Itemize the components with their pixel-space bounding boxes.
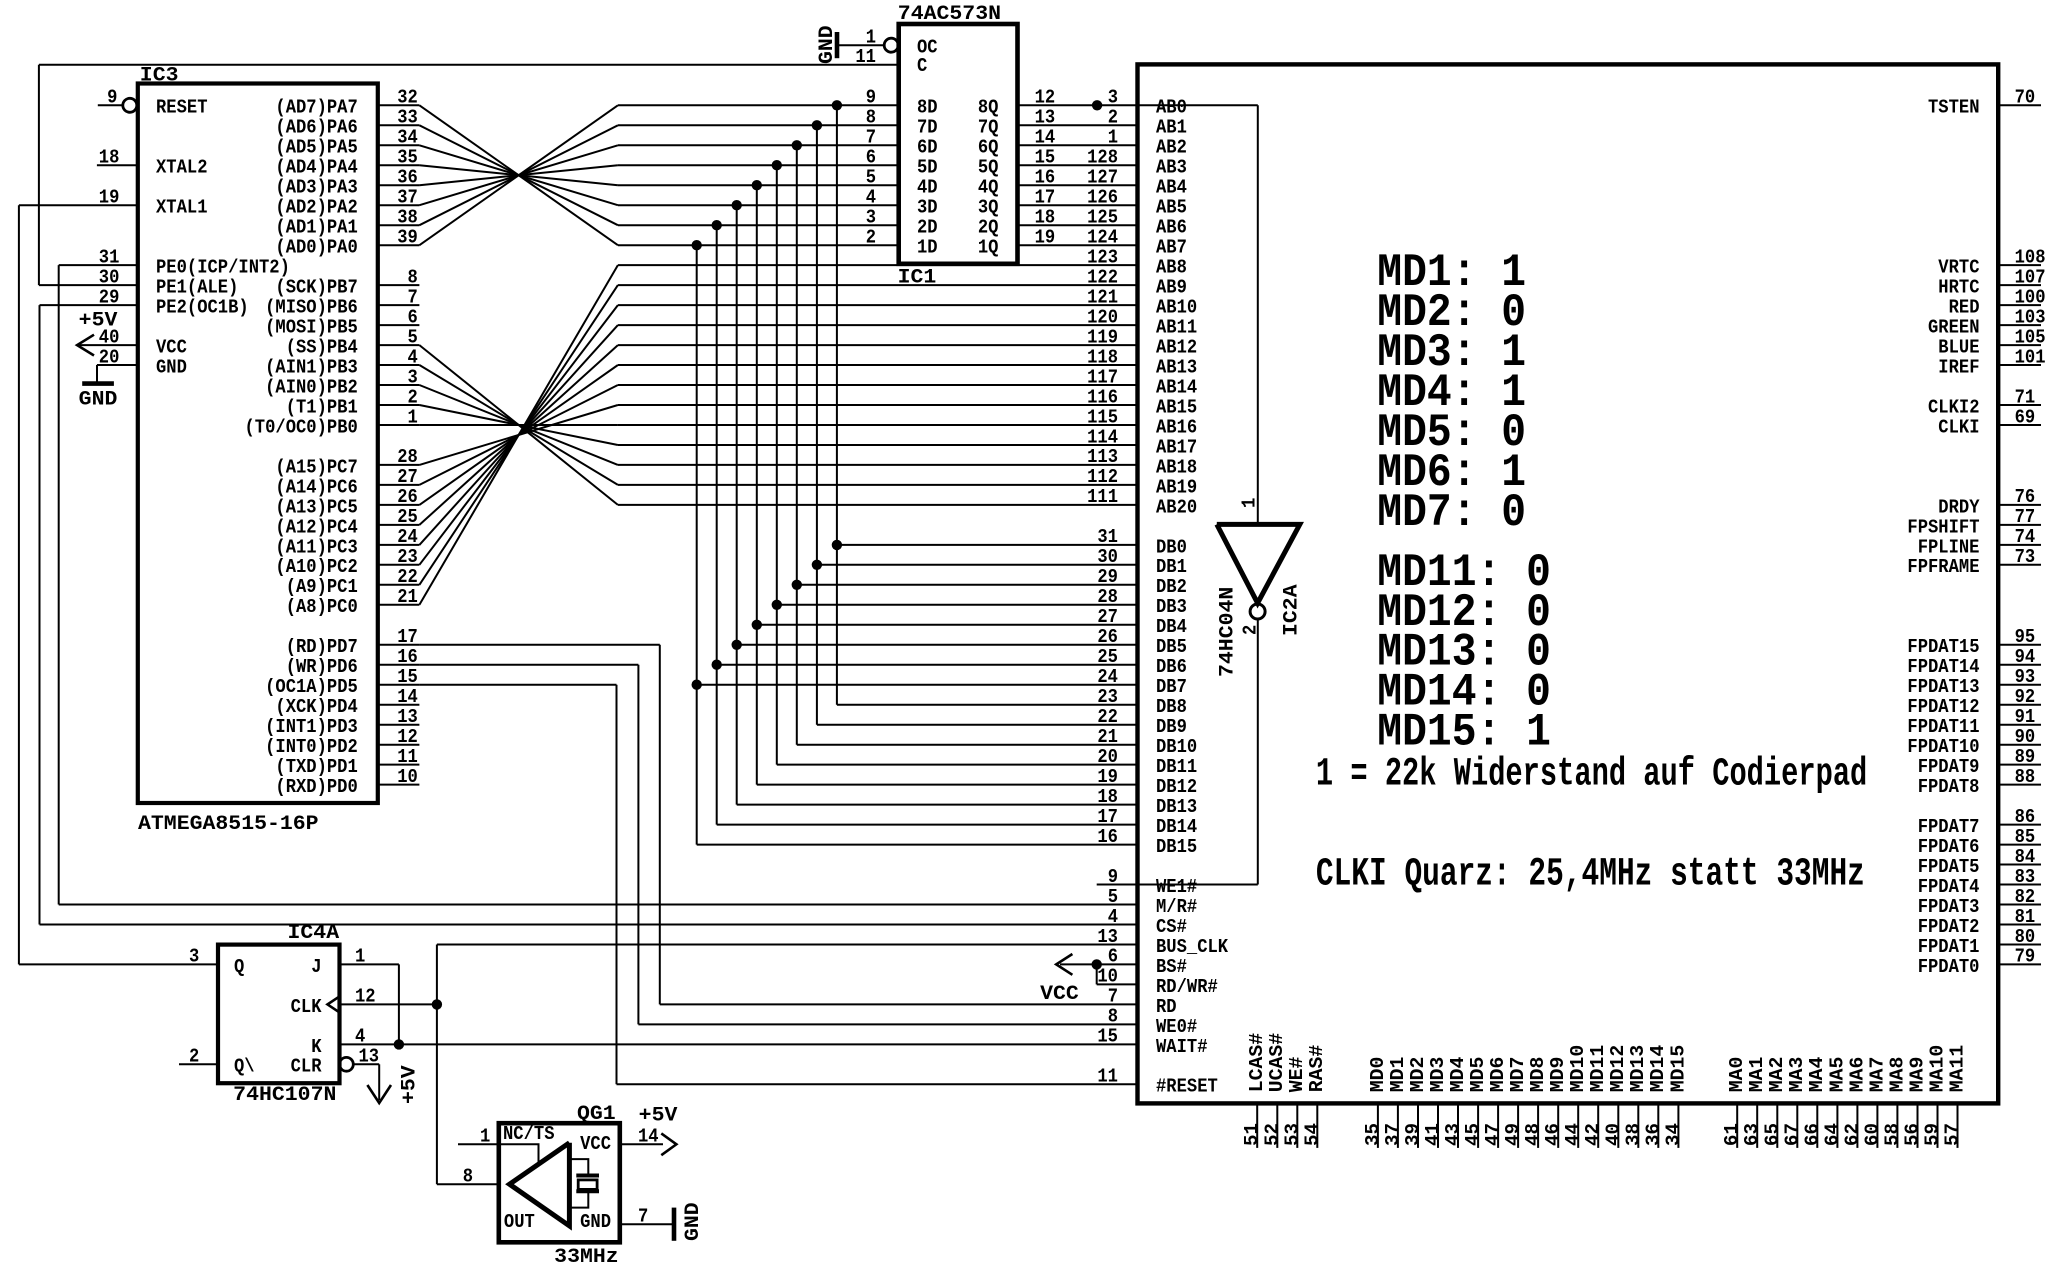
svg-text:DB15: DB15 (1156, 836, 1197, 858)
svg-text:54: 54 (1301, 1123, 1323, 1146)
svg-text:(WR)PD6: (WR)PD6 (286, 656, 358, 678)
svg-text:FPFRAME: FPFRAME (1907, 556, 1979, 578)
junction AD0 at data drop (692, 240, 702, 250)
wire WE0# to controller (638, 1023, 1137, 1025)
controller IREF pin stub (1998, 364, 2041, 366)
svg-text:101: 101 (2015, 346, 2046, 368)
svg-text:4Q: 4Q (978, 177, 999, 199)
wire DB11 to controller (777, 764, 1138, 766)
IC3 PA3 pin name (275, 177, 357, 199)
svg-text:118: 118 (1087, 346, 1118, 368)
svg-text:IC2A: IC2A (1281, 584, 1304, 636)
wire address fan diagonal PC2 (419, 305, 618, 565)
svg-text:88: 88 (2015, 766, 2036, 788)
controller MA7 pin stub (1876, 1103, 1878, 1148)
QG1 NC/TS pin name (503, 1123, 555, 1145)
IC3 PC7 pin name (275, 456, 357, 478)
controller AB0 pin name (1156, 97, 1187, 119)
svg-text:(T1)PB1: (T1)PB1 (286, 396, 358, 418)
controller RAS# pin stub (1316, 1103, 1318, 1148)
svg-text:61: 61 (1721, 1123, 1743, 1146)
wire DB15 to controller (697, 844, 1138, 846)
svg-text:30: 30 (1097, 546, 1118, 568)
controller pin 57 number (1942, 1123, 1964, 1146)
svg-text:MA11: MA11 (1946, 1045, 1968, 1093)
junction AD1 at data drop (712, 220, 722, 230)
IC3 pin 29 PE2 wire (40, 304, 138, 306)
IC3 pin 13 PD3 stub (378, 724, 420, 726)
svg-text:67: 67 (1781, 1123, 1803, 1146)
IC3 pin 38 PA1 stub (378, 224, 420, 226)
svg-text:(SCK)PB7: (SCK)PB7 (275, 277, 357, 299)
IC3 pin 12 PD2 stub (378, 744, 420, 746)
svg-text:BLUE: BLUE (1938, 337, 1979, 359)
svg-text:51: 51 (1241, 1123, 1263, 1146)
IC4A pin 4 K wire WAIT# net (340, 1043, 1138, 1045)
IC3 PC4 pin name (275, 516, 358, 538)
IC3 pin 16 PD6 stub (378, 664, 420, 666)
svg-text:GND: GND (682, 1202, 705, 1241)
annotation text MD7 setting (1377, 486, 1526, 539)
svg-text:+5V: +5V (399, 1065, 422, 1104)
controller MD4 pin name (1447, 1056, 1469, 1092)
wire AB0 into box to inverter (1138, 104, 1258, 106)
IC3 pin 40 VCC wire (78, 344, 138, 346)
controller MD10 pin stub (1577, 1103, 1579, 1148)
svg-text:29: 29 (1097, 566, 1118, 588)
svg-text:MD15: 1: MD15: 1 (1377, 706, 1551, 759)
IC3 VCC pin name (156, 337, 187, 359)
controller MD1 pin stub (1397, 1103, 1399, 1148)
controller MA10 pin stub (1937, 1103, 1939, 1148)
controller pin 27 number (1097, 606, 1118, 628)
svg-text:80: 80 (2015, 926, 2036, 948)
IC3 PC3 pin name (275, 536, 357, 558)
svg-text:(AD1)PA1: (AD1)PA1 (275, 217, 357, 239)
IC3 pin 5 number (408, 326, 418, 348)
wire inverter output vertical (1257, 619, 1259, 885)
controller AB5 pin name (1156, 197, 1187, 219)
svg-text:FPDAT4: FPDAT4 (1918, 876, 1980, 898)
wire AD1 vertical data drop (716, 225, 718, 824)
wire DB14 to controller (717, 824, 1138, 826)
wire PD5 horizontal (419, 684, 616, 686)
IC3 PB5 pin name (265, 317, 358, 339)
annotation text MD6 setting (1377, 446, 1526, 499)
svg-text:23: 23 (1097, 686, 1118, 708)
IC1 6D pin name (917, 137, 938, 159)
svg-text:WE1#: WE1# (1156, 876, 1197, 898)
controller pin 36 number (1642, 1123, 1664, 1146)
controller TSTEN pin stub (1998, 104, 2041, 106)
controller FPDAT8 pin name (1918, 776, 1980, 798)
controller FPSHIFT pin name (1907, 516, 1979, 538)
IC3 PB3 pin name (265, 356, 358, 378)
IC3 pin 32 PA7 stub (378, 104, 420, 106)
svg-text:VCC: VCC (1040, 983, 1079, 1006)
IC1 pin 2 number (866, 227, 876, 249)
controller FPDAT10 pin name (1907, 736, 1979, 758)
svg-text:CLKI2: CLKI2 (1928, 396, 1980, 418)
IC3 PD6 pin name (286, 656, 358, 678)
controller AB2 pin name (1156, 137, 1187, 159)
svg-text:(A9)PC1: (A9)PC1 (286, 576, 358, 598)
svg-text:AB0: AB0 (1156, 97, 1187, 119)
svg-text:41: 41 (1422, 1123, 1444, 1146)
controller pin 88 number (2015, 766, 2036, 788)
svg-text:AB1: AB1 (1156, 117, 1187, 139)
controller AB12 pin name (1156, 337, 1197, 359)
svg-text:4: 4 (408, 346, 419, 368)
wire AB20 to controller (618, 504, 1138, 506)
svg-text:DB10: DB10 (1156, 736, 1197, 758)
svg-text:MD12: MD12 (1607, 1045, 1629, 1093)
svg-text:AB20: AB20 (1156, 496, 1197, 518)
svg-text:AB10: AB10 (1156, 297, 1197, 319)
svg-text:16: 16 (397, 646, 418, 668)
wire DB3 to controller (777, 604, 1138, 606)
controller DB11 pin name (1156, 756, 1197, 778)
svg-text:FPDAT8: FPDAT8 (1918, 776, 1980, 798)
controller DB1 pin name (1156, 556, 1187, 578)
svg-text:30: 30 (99, 266, 120, 288)
svg-text:AB18: AB18 (1156, 456, 1197, 478)
svg-text:42: 42 (1582, 1123, 1604, 1146)
IC3 PC0 pin name (286, 596, 358, 618)
controller FPDAT14 pin name (1907, 656, 1979, 678)
QG1 OUT pin name (504, 1211, 535, 1233)
wire AD4 vertical data drop (776, 165, 778, 764)
svg-text:19: 19 (99, 187, 120, 209)
controller pin 4 number (1108, 906, 1119, 928)
controller pin 48 number (1522, 1123, 1544, 1146)
controller MD12 pin stub (1617, 1103, 1619, 1148)
controller AB6 pin name (1156, 217, 1187, 239)
VCC supply label (1040, 983, 1079, 1006)
controller WE1# pin name (1156, 876, 1197, 898)
controller MA3 pin stub (1796, 1103, 1798, 1148)
wire AD bus fan diagonal PA4 (419, 165, 618, 185)
svg-text:NC/TS: NC/TS (503, 1123, 555, 1145)
svg-text:(TXD)PD1: (TXD)PD1 (275, 756, 357, 778)
svg-text:3D: 3D (917, 197, 938, 219)
svg-text:108: 108 (2015, 246, 2046, 268)
wire DB8 to controller (837, 704, 1138, 706)
IC1 pin 1 OC bubble (884, 38, 898, 52)
IC4A Qbar pin name (234, 1056, 255, 1078)
IC4A pin 12 CLK wire (340, 1003, 437, 1005)
IC3 name label (140, 65, 179, 88)
IC3 PA1 pin name (275, 217, 357, 239)
svg-text:123: 123 (1087, 246, 1118, 268)
IC1 pin 4 number (866, 187, 877, 209)
IC3 pin 33 number (397, 107, 418, 129)
svg-text:34: 34 (397, 127, 418, 149)
IC3 pin 15 PD5 stub (378, 684, 420, 686)
wire PD7 RD vertical (659, 645, 661, 1005)
controller WE# pin name (1286, 1056, 1308, 1092)
wire AD4 horizontal to IC1 5D (618, 164, 899, 166)
IC1 5Q pin name (978, 157, 999, 179)
controller FPDAT2 pin name (1918, 916, 1980, 938)
controller pin 42 number (1582, 1123, 1604, 1146)
IC3 PE0 pin name (156, 257, 290, 279)
svg-text:MA0: MA0 (1726, 1057, 1748, 1093)
svg-text:RD: RD (1156, 996, 1177, 1018)
wire DB9 to controller (817, 724, 1138, 726)
wire AD bus fan diagonal PA6 (419, 125, 618, 225)
controller CLKI pin stub (1998, 424, 2041, 426)
controller CLKI2 pin stub (1998, 404, 2041, 406)
controller pin 39 number (1402, 1123, 1424, 1146)
IC1 pin 5 number (866, 167, 876, 189)
svg-text:65: 65 (1761, 1123, 1783, 1146)
QG1 GND pin name (580, 1211, 611, 1233)
svg-text:84: 84 (2015, 846, 2036, 868)
svg-text:2D: 2D (917, 217, 938, 239)
svg-text:64: 64 (1821, 1123, 1843, 1146)
svg-text:17: 17 (1097, 806, 1118, 828)
svg-text:(A15)PC7: (A15)PC7 (275, 456, 357, 478)
controller pin 120 number (1087, 306, 1118, 328)
controller pin 103 number (2015, 306, 2046, 328)
svg-text:HRTC: HRTC (1938, 277, 1979, 299)
svg-text:124: 124 (1087, 227, 1118, 249)
controller MD13 pin stub (1637, 1103, 1639, 1148)
controller MA2 pin name (1766, 1057, 1788, 1093)
svg-text:(XCK)PD4: (XCK)PD4 (275, 696, 358, 718)
junction AD7 at data drop (832, 100, 842, 110)
controller DB14 pin name (1156, 816, 1197, 838)
controller pin 10 number (1097, 966, 1118, 988)
wire XTAL1 net vertical to IC4A Q (18, 205, 20, 964)
wire AD2 vertical data drop (736, 205, 738, 804)
controller pin 101 number (2015, 346, 2046, 368)
svg-text:74AC573N: 74AC573N (898, 3, 1001, 26)
controller WE0# pin name (1156, 1016, 1197, 1038)
svg-text:89: 89 (2015, 746, 2036, 768)
IC3 pin 3 number (408, 366, 418, 388)
svg-text:126: 126 (1087, 187, 1118, 209)
svg-text:11: 11 (397, 746, 418, 768)
svg-text:MA7: MA7 (1866, 1057, 1888, 1093)
controller AB11 pin name (1156, 317, 1197, 339)
IC3 pin 12 number (397, 726, 418, 748)
svg-text:XTAL1: XTAL1 (156, 197, 208, 219)
wire address fan diagonal PC3 (419, 325, 618, 545)
controller CLKI pin name (1938, 416, 1979, 438)
IC3 PA5 pin name (275, 137, 357, 159)
wire DB4 to controller (757, 624, 1138, 626)
controller pin 70 number (2015, 87, 2036, 109)
controller pin 49 number (1502, 1123, 1524, 1146)
svg-text:AB13: AB13 (1156, 356, 1197, 378)
IC3 value label ATMEGA8515-16P (138, 813, 319, 836)
svg-text:PE1(ALE): PE1(ALE) (156, 277, 238, 299)
svg-text:111: 111 (1087, 486, 1118, 508)
controller MA8 pin name (1886, 1057, 1908, 1093)
controller RAS# pin name (1306, 1044, 1328, 1092)
svg-text:MD15: MD15 (1667, 1045, 1689, 1093)
svg-text:CLKI: CLKI (1938, 416, 1979, 438)
controller DB10 pin name (1156, 736, 1197, 758)
controller CS# pin name (1156, 916, 1187, 938)
svg-text:(A14)PC6: (A14)PC6 (275, 476, 357, 498)
controller WE# pin stub (1296, 1103, 1298, 1148)
svg-text:(AD7)PA7: (AD7)PA7 (275, 97, 357, 119)
svg-text:82: 82 (2015, 886, 2036, 908)
svg-text:DB11: DB11 (1156, 756, 1197, 778)
IC1 pin 14 number (1035, 127, 1056, 149)
svg-text:14: 14 (397, 686, 418, 708)
wire PD7 RD horizontal (419, 644, 659, 646)
IC3 pin 25 number (397, 506, 418, 528)
controller MA3 pin name (1786, 1057, 1808, 1093)
controller pin 38 number (1622, 1123, 1644, 1146)
controller MA6 pin stub (1856, 1103, 1858, 1148)
svg-text:60: 60 (1861, 1123, 1883, 1146)
svg-text:24: 24 (397, 526, 418, 548)
svg-text:16: 16 (1097, 826, 1118, 848)
svg-text:(AIN1)PB3: (AIN1)PB3 (265, 356, 358, 378)
controller pin 2 number (1108, 107, 1118, 129)
svg-text:FPDAT11: FPDAT11 (1907, 716, 1979, 738)
svg-text:MD0: MD0 (1367, 1057, 1389, 1093)
svg-text:20: 20 (99, 346, 120, 368)
wire PE0 to M/R# horizontal (59, 904, 1138, 906)
IC3 pin 10 number (397, 766, 418, 788)
IC3 pin 18 number (99, 147, 120, 169)
svg-text:DB4: DB4 (1156, 616, 1187, 638)
svg-text:28: 28 (397, 446, 418, 468)
controller FPFRAME pin name (1907, 556, 1979, 578)
controller MD3 pin stub (1437, 1103, 1439, 1148)
controller MA1 pin stub (1756, 1103, 1758, 1148)
IC3 pin 16 number (397, 646, 418, 668)
IC1 7D pin name (917, 117, 938, 139)
IC3 PA6 pin name (275, 117, 357, 139)
IC1 pin 8 number (866, 107, 876, 129)
IC1 C pin name (917, 55, 928, 77)
controller MA11 pin stub (1957, 1103, 1959, 1148)
svg-text:CLR: CLR (291, 1056, 322, 1078)
svg-text:37: 37 (397, 187, 418, 209)
controller pin 113 number (1087, 446, 1118, 468)
wire BS# to RD/WR# vertical (1096, 964, 1098, 984)
IC3 pin 2 number (408, 386, 418, 408)
wire address fan diagonal PC1 (419, 285, 618, 585)
controller pin 73 number (2015, 546, 2036, 568)
QG1 amplifier triangle (510, 1143, 570, 1226)
IC3 pin 3 PB2 stub (378, 384, 420, 386)
svg-text:#RESET: #RESET (1156, 1076, 1218, 1098)
svg-text:3Q: 3Q (978, 197, 999, 219)
controller MA9 pin name (1906, 1057, 1928, 1093)
controller pin 16 number (1097, 826, 1118, 848)
IC3 pin 11 PD1 stub (378, 764, 420, 766)
controller FPDAT15 pin stub (1998, 644, 2041, 646)
IC3 pin 8 PB7 stub (378, 284, 420, 286)
svg-text:70: 70 (2015, 87, 2036, 109)
junction AD6 at data drop (812, 120, 822, 130)
controller MD9 pin stub (1557, 1103, 1559, 1148)
controller pin 29 number (1097, 566, 1118, 588)
controller FPFRAME pin stub (1998, 564, 2041, 566)
controller MA4 pin stub (1816, 1103, 1818, 1148)
svg-text:11: 11 (1097, 1066, 1118, 1088)
wire AD bus fan diagonal PA5 (419, 145, 618, 205)
IC4A Q pin name (234, 956, 245, 978)
svg-text:46: 46 (1542, 1123, 1564, 1146)
svg-text:7: 7 (1108, 986, 1118, 1008)
wire AB15 to controller (618, 404, 1138, 406)
controller RD/WR# pin name (1156, 976, 1218, 998)
wire J to K vertical (398, 964, 400, 1044)
+5V supply arrow at IC4A CLR (367, 1085, 391, 1103)
wire AD5 vertical data drop (796, 145, 798, 744)
wire RD/WR# stub (1097, 983, 1138, 985)
svg-text:2: 2 (408, 386, 418, 408)
svg-text:(A12)PC4: (A12)PC4 (275, 516, 358, 538)
svg-text:MD5: MD5 (1467, 1057, 1489, 1093)
controller UCAS# pin name (1266, 1033, 1288, 1093)
svg-text:93: 93 (2015, 666, 2036, 688)
svg-text:8: 8 (866, 107, 876, 129)
controller pin 100 number (2015, 286, 2046, 308)
controller MD8 pin name (1527, 1057, 1549, 1093)
QG1 oscillator body (499, 1123, 620, 1242)
controller MD2 pin name (1407, 1057, 1429, 1093)
svg-text:36: 36 (397, 167, 418, 189)
svg-text:DB12: DB12 (1156, 776, 1197, 798)
svg-text:FPDAT12: FPDAT12 (1907, 696, 1979, 718)
svg-text:81: 81 (2015, 906, 2036, 928)
svg-text:CLK: CLK (291, 996, 322, 1018)
controller DB8 pin name (1156, 696, 1187, 718)
IC1 74AC573N body (899, 24, 1018, 264)
controller pin 67 number (1781, 1123, 1803, 1146)
wire RD to controller (660, 1003, 1138, 1005)
controller pin 28 number (1097, 586, 1118, 608)
svg-text:CS#: CS# (1156, 916, 1187, 938)
svg-text:120: 120 (1087, 306, 1118, 328)
IC3 PA4 pin name (275, 157, 358, 179)
wire DB1 to controller (817, 564, 1138, 566)
svg-text:(AD6)PA6: (AD6)PA6 (275, 117, 357, 139)
IC3 PC2 pin name (275, 556, 357, 578)
IC1 pin 1 number (866, 27, 876, 49)
svg-text:3: 3 (1108, 87, 1118, 109)
svg-text:GREEN: GREEN (1928, 317, 1980, 339)
controller pin 122 number (1087, 266, 1118, 288)
controller pin 26 number (1097, 626, 1118, 648)
controller MA11 pin name (1946, 1045, 1968, 1093)
IC4A K pin name (311, 1036, 322, 1058)
ground symbol below IC3 label (79, 389, 118, 412)
junction AD5 at DB2 (792, 580, 802, 590)
IC3 pin 24 number (397, 526, 418, 548)
svg-text:FPSHIFT: FPSHIFT (1907, 516, 1979, 538)
IC3 pin 23 PC2 stub (378, 564, 420, 566)
annotation text CLKI Quarz (1316, 853, 1865, 898)
IC3 PD2 pin name (265, 736, 358, 758)
wire IC1 2Q to AB6 (1018, 224, 1138, 226)
IC1 OC pin name (917, 37, 938, 59)
IC3 pin 5 PB4 stub (378, 344, 420, 346)
controller pin 86 number (2015, 806, 2036, 828)
svg-text:(INT0)PD2: (INT0)PD2 (265, 736, 358, 758)
IC1 7Q pin name (978, 117, 999, 139)
